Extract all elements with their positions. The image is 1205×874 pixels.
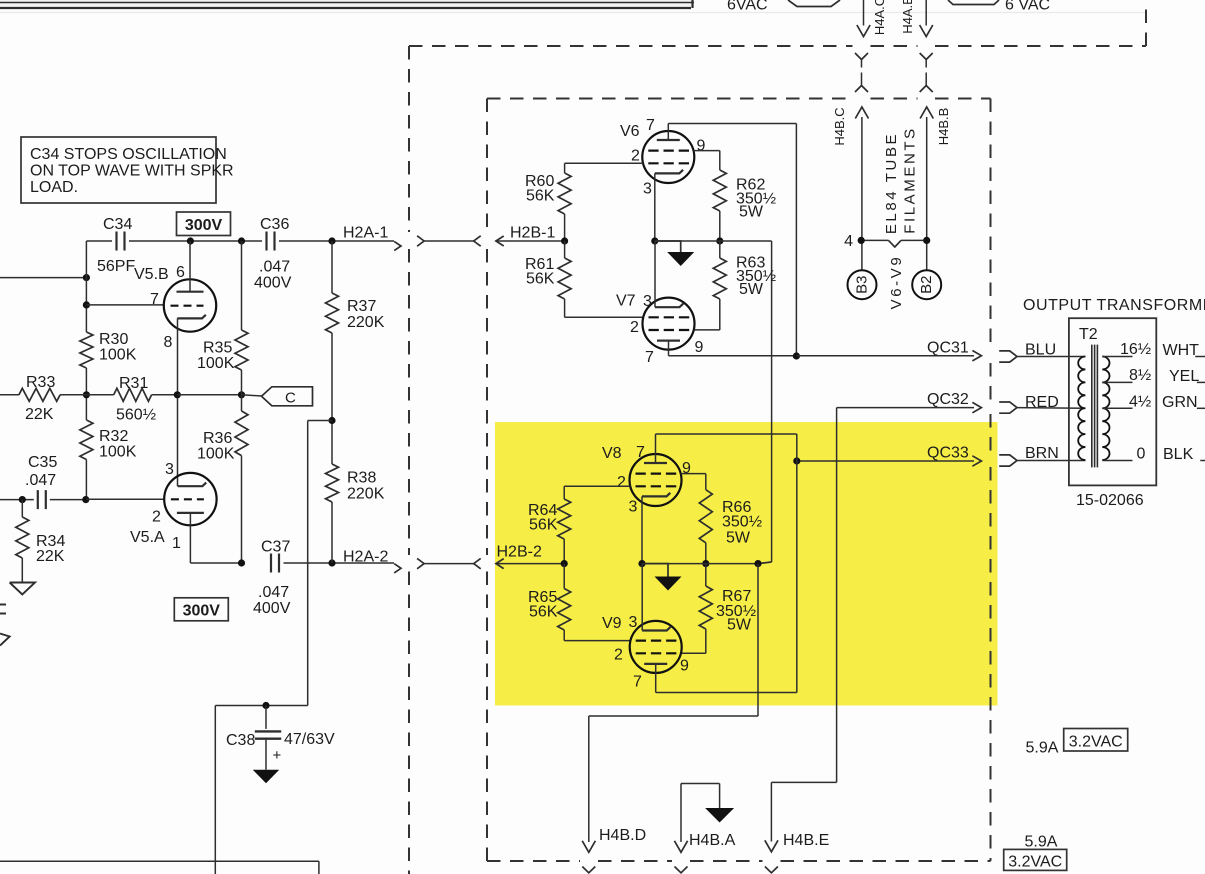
wire H2B-2 into box [496,563,564,565]
svg-text:300V: 300V [185,217,223,234]
wire QC33 [797,460,974,462]
wire V5.B grid [86,304,164,306]
node R64/R65 junction [561,560,568,567]
svg-text:T2: T2 [1079,326,1098,343]
svg-text:.047: .047 [259,259,290,276]
svg-text:100K: 100K [99,347,137,364]
arrowhead H2A-2 tag [394,564,401,573]
arrowhead H2A-1 tag [394,241,401,250]
svg-text:H4B.E: H4B.E [783,832,829,849]
wire QC32 [837,407,974,409]
svg-text:ON TOP WAVE WITH SPKR: ON TOP WAVE WITH SPKR [30,163,234,180]
node grid feed [83,274,90,281]
wire left column x=86 [85,241,87,332]
wire B+ rail C36 to H2A-1 [279,240,394,242]
box 300V upper [177,212,231,236]
svg-text:56K: 56K [529,604,558,621]
svg-text:RED: RED [1025,394,1059,411]
wire R66 to screen bus [705,543,707,564]
pentode V7 [643,298,695,350]
connector H4B.E lower half (clipped) [765,867,778,873]
svg-text:R36: R36 [203,430,232,447]
wire V8 plate rail [655,434,657,463]
wire V5.B plate lead [189,241,191,292]
svg-text:QC32: QC32 [927,391,969,408]
svg-text:H4A.B: H4A.B [900,0,915,34]
fragment ground at left edge [0,634,10,646]
transformer T2 secondary winding [1102,357,1109,461]
svg-text:560½: 560½ [116,407,156,424]
resistor R65 [558,589,571,631]
top frame box bottom edge [0,2,694,4]
svg-text:5.9A: 5.9A [1025,834,1058,851]
wire GRN [1197,407,1205,409]
wire R64 to H2B-2 node [563,539,565,564]
svg-text:QC31: QC31 [927,340,969,357]
resistor R64 [558,499,571,539]
svg-text:220K: 220K [347,486,385,503]
wire R63 to V7 screen [719,241,721,258]
connector H2B-1 female [474,236,481,246]
resistor R33 [19,388,60,401]
inner dashed box bottom edge [487,860,580,862]
svg-text:9: 9 [682,460,691,477]
wire R35 leads [241,241,243,330]
wire WHT [1195,356,1205,358]
svg-text:GRN: GRN [1162,394,1198,411]
wire V7 plate lead [668,341,670,356]
resistor R37 [326,293,339,333]
svg-text:3: 3 [165,461,174,478]
svg-text:WHT: WHT [1163,342,1200,359]
wire H4A.B drop [925,0,927,26]
wire grid feed from left (y=278) [0,277,86,279]
arrowhead QC31 [972,351,981,361]
arrowhead H4A.B [920,25,933,37]
svg-text:V8: V8 [602,445,622,462]
svg-text:C35: C35 [28,454,57,471]
wire QC31 [796,355,974,357]
arrowhead QC33 [972,456,981,466]
node V8/V9 cathode junction [638,560,645,567]
triode V5.A [164,473,216,525]
svg-text:5.9A: 5.9A [1026,740,1059,757]
wire tap to left drop [308,420,332,422]
terminal B2 [912,270,941,299]
resistor R67 [699,586,712,629]
svg-text:6 VAC: 6 VAC [1005,0,1050,14]
svg-text:2: 2 [614,647,623,664]
svg-text:2: 2 [617,474,626,491]
pentode V9 [630,621,682,673]
node screen bus to H4B.D [754,560,761,567]
svg-text:15-02066: 15-02066 [1076,492,1144,509]
svg-text:V7: V7 [616,293,636,310]
svg-text:V9: V9 [602,615,622,632]
resistor R31 [114,388,152,401]
tap 4½ stub [1102,407,1132,409]
wire R34 leads [21,500,23,517]
svg-text:+: + [273,747,282,764]
resistor R63 [713,258,726,299]
svg-text:R35: R35 [203,340,232,357]
wire BRN [1017,460,1085,462]
svg-text:H4B.B: H4B.B [936,108,951,146]
capacitor C35 [37,490,39,509]
node R62/R63 junction [716,237,723,244]
svg-text:2: 2 [152,509,161,526]
wire H2B-1 into box [496,240,565,242]
triode V5.B [164,279,216,331]
note box C34 comment [21,137,216,203]
arrowhead H4B.D (down) [582,841,595,853]
transformer T2 box [1069,318,1156,485]
node C37 left junction [238,559,245,566]
resistor R36 [235,411,248,456]
svg-text:3: 3 [629,499,638,516]
inner dashed box top edge [487,98,853,100]
svg-text:400V: 400V [253,600,291,617]
wire V9 plate lead [655,663,657,692]
wire C38 to ground [265,739,267,770]
tap 8½ stub [1102,381,1132,383]
connector pair H4A.B/H4B.B [920,53,933,60]
connector H2A-1 male [417,236,424,246]
wire cathode bus [655,240,720,242]
svg-text:3: 3 [643,293,652,310]
svg-text:16½: 16½ [1120,341,1151,358]
svg-text:B3: B3 [854,276,871,294]
svg-text:100K: 100K [197,446,235,463]
svg-text:47/63V: 47/63V [284,731,335,748]
node V5 cathode bias junction [174,391,181,398]
arrowhead H2B-1 (left) [496,236,504,246]
wire BLK [1200,460,1205,462]
pentode V8 [630,454,682,506]
svg-text:9: 9 [697,138,706,155]
node R66/R67 junction [702,560,709,567]
wire R31 to cathode node [152,394,178,396]
terminal B3 [848,270,877,299]
node V5.B grid junction [83,301,90,308]
ground (V6/V7 cathodes, filled) [667,252,694,266]
wire R62 to cathode bus [719,211,721,241]
svg-text:R30: R30 [99,331,128,348]
svg-text:QC33: QC33 [927,445,969,462]
resistor R61 [558,258,571,299]
resistor R38 [326,464,339,502]
flag C [262,387,313,406]
svg-text:4: 4 [844,233,853,250]
connector pair H4A.C/H4B.C [855,53,868,60]
svg-text:R37: R37 [347,298,376,315]
svg-text:V6-V9: V6-V9 [888,255,905,310]
svg-text:H2B-1: H2B-1 [510,225,555,242]
svg-text:22K: 22K [25,406,54,423]
svg-text:C38: C38 [226,732,255,749]
svg-text:EL84 TUBE: EL84 TUBE [883,132,900,234]
node filament junction right [923,237,930,244]
arrowhead H4B.C (up) [855,107,868,119]
svg-text:6VAC: 6VAC [727,0,768,14]
node R60/R61 junction [561,237,568,244]
wire V7 cathode lead [654,241,656,307]
wire R38 bottom lead [331,502,333,563]
svg-text:H2A-1: H2A-1 [343,225,388,242]
svg-text:7: 7 [645,349,654,366]
wire H4A.C drop [863,0,865,26]
svg-text:220K: 220K [347,314,385,331]
wire V6 grid to R60 [565,162,644,164]
resistor R62 [713,170,726,211]
svg-text:C: C [285,390,296,407]
inner dashed box right edge [990,99,992,351]
svg-text:7: 7 [636,444,645,461]
top frame header band [0,0,692,7]
svg-text:5W: 5W [726,530,751,547]
svg-text:V6: V6 [620,123,640,140]
arrowhead H4B.B (up) [920,107,933,119]
svg-text:9: 9 [680,658,689,675]
node R30/R31/R32 junction [83,391,90,398]
svg-text:100K: 100K [99,444,137,461]
svg-text:300V: 300V [183,603,221,620]
node filament junction left [858,237,865,244]
tap 16½ stub [1102,356,1132,358]
wire R30 to R31 row [85,368,87,420]
resistor R66 [699,490,712,543]
wire bottom-left bus [0,860,319,862]
wire H4B.D drop [757,564,759,716]
svg-text:8½: 8½ [1129,367,1151,384]
connector shell J-A (clipped) [788,0,840,7]
svg-text:LOAD.: LOAD. [30,179,78,196]
svg-text:3.2VAC: 3.2VAC [1069,734,1123,751]
connector QC31/BLU female [999,351,1017,357]
svg-text:56PF: 56PF [97,258,135,275]
svg-text:V5.A: V5.A [130,529,165,546]
wire V8/V9 screen bus [642,563,706,565]
svg-text:7: 7 [150,291,159,308]
wire H4B.B riser [926,117,928,270]
node H2A-2 junction [328,559,335,566]
svg-text:2: 2 [630,319,639,336]
node R37/R38 tap [328,417,335,424]
wire V5.A plate lead [189,513,191,563]
svg-text:R31: R31 [119,375,148,392]
arrowhead QC32 [972,402,981,412]
svg-text:7: 7 [633,674,642,691]
wire V9 cathode lead [641,564,643,631]
resistor R60 [558,173,571,214]
wire C37 to H2A-2 [284,562,395,564]
wire V6 screen to R62 [694,150,720,152]
svg-text:400V: 400V [254,275,292,292]
connector H2A-2 male [417,558,424,568]
svg-text:3: 3 [643,181,652,198]
svg-text:22K: 22K [36,548,65,565]
svg-text:100K: 100K [197,355,235,372]
wire C35 to grid node [50,499,87,501]
svg-text:V5.B: V5.B [134,266,169,283]
svg-text:BLK: BLK [1163,446,1194,463]
box 3.2VAC upper [1064,729,1128,752]
svg-text:0: 0 [1137,446,1146,463]
svg-text:4½: 4½ [1129,394,1151,411]
svg-text:1: 1 [172,535,181,552]
svg-text:3: 3 [629,614,638,631]
arrowhead H4B.E (down) [765,840,778,852]
node R35/R36 junction [238,391,245,398]
svg-text:B2: B2 [918,276,935,294]
node B+ at 300V box [187,237,194,244]
wire V5.B cathode drop [177,318,179,486]
wire C35 row from left [0,499,34,501]
connector H4B.A lower half (clipped) [675,867,688,873]
svg-text:C37: C37 [261,539,290,556]
node R34 tap [19,496,26,503]
wire ground stub (V6/V7) [655,241,681,252]
connector QC32/RED female [999,402,1017,408]
svg-text:H2B-2: H2B-2 [497,544,542,561]
wire R65 leads [563,564,565,589]
wire cathode row to R35/R36 node [177,394,241,396]
outer dashed boundary right edge going up [1145,0,1147,46]
svg-text:H4B.D: H4B.D [599,827,646,844]
wire feedback across bottom [215,705,307,707]
svg-text:R32: R32 [99,428,128,445]
arrowhead H2B-2 (left) [496,559,504,569]
yellow highlight over V8/V9 output stage [495,422,998,706]
wire V8 grid to R64 [564,485,630,487]
ground (R34, open triangle) [10,583,35,595]
svg-text:C36: C36 [260,216,289,233]
capacitor C36 [265,232,267,251]
svg-text:YEL: YEL [1169,368,1199,385]
wire C38 lead [265,706,267,729]
wire V6 plate rail [667,124,669,141]
wire R37 leads [331,241,333,293]
svg-text:2: 2 [631,148,640,165]
svg-text:H4A.C: H4A.C [872,0,887,35]
capacitor C38 (polarized) [255,730,281,732]
wire H4B.E drop [771,781,836,783]
connector QC33/BRN female [999,455,1017,461]
wire V6 cathode lead [654,173,656,241]
wire ground stub (V8/V9) [642,564,668,577]
wire to C flag [242,395,262,396]
resistor R32 [80,420,93,460]
wire filament bus with merge notch [861,239,888,241]
node V5.A grid junction [82,496,89,503]
svg-text:FILAMENTS: FILAMENTS [901,126,918,234]
svg-text:56K: 56K [529,517,558,534]
svg-text:C34 STOPS OSCILLATION: C34 STOPS OSCILLATION [30,146,227,163]
svg-text:H2A-2: H2A-2 [343,549,388,566]
svg-text:R38: R38 [347,470,376,487]
svg-text:BLU: BLU [1025,342,1056,359]
svg-text:8: 8 [164,334,173,351]
outer dashed boundary top edge [409,45,853,47]
svg-text:BRN: BRN [1025,445,1059,462]
svg-text:56K: 56K [526,271,555,288]
inner dashed box left edge [486,99,488,233]
svg-text:350½: 350½ [722,514,762,531]
pentode V6 [642,131,694,183]
svg-text:C34: C34 [103,216,132,233]
ground (V8/V9 cathodes, filled) [655,577,682,591]
wire RED [1017,407,1085,410]
box 3.2VAC lower [1004,849,1067,870]
wire R33 to R31 [86,394,113,396]
transformer T2 primary winding [1078,357,1085,461]
resistor R35 [235,330,248,370]
capacitor C34 [115,232,117,251]
arrowhead H4B.A (down) [674,841,687,853]
node H2A-1 junction [328,237,335,244]
node QC31 junction [793,352,800,359]
wire H4B.C riser [861,117,863,270]
box 300V lower [174,598,228,621]
outer dashed boundary left edge [408,46,410,232]
connector H2B-2 female [474,558,481,568]
wire R32 to C35 row [85,460,87,500]
wire R67 to V9 screen [705,564,707,586]
svg-text:R33: R33 [26,374,55,391]
wire V8 screen to R66 [681,473,706,475]
arrowhead H4A.C [857,25,870,37]
wire YEL [1197,381,1205,383]
wire H4B.A ground link [680,784,682,843]
node B+ at R35 column [238,237,245,244]
svg-text:OUTPUT TRANSFORMER: OUTPUT TRANSFORMER [1023,297,1205,314]
svg-text:7: 7 [646,117,655,134]
wire B+ rail C34 to C36 [129,240,262,242]
svg-text:6: 6 [176,264,185,281]
svg-text:.047: .047 [25,472,56,489]
svg-text:9: 9 [695,339,704,356]
fragment letter at left edge [0,604,6,606]
wire R60 to H2B-1 node [564,214,566,241]
resistor R30 [80,332,93,368]
connector H4B.D lower half (clipped) [582,867,595,873]
wire V5.A grid [86,498,164,500]
wire BLU [1017,356,1085,358]
svg-text:H4B.C: H4B.C [832,107,847,145]
connector shell J-B (clipped) [948,0,999,5]
wire R36 leads [241,395,243,411]
svg-text:3.2VAC: 3.2VAC [1008,854,1062,871]
top frame faint rule [0,12,1146,14]
wire R33 entry [0,394,19,396]
wire B+ rail left segment [86,240,112,242]
svg-text:5W: 5W [739,204,764,221]
svg-text:56K: 56K [526,188,555,205]
node V6/V7 cathode junction [651,237,658,244]
capacitor C37 [270,554,272,573]
resistor R34 [16,517,29,558]
svg-text:.047: .047 [258,584,289,601]
wire V8 cathode lead [641,496,643,563]
svg-text:5W: 5W [739,281,764,298]
wire R61 leads [564,241,566,258]
ground (C38, filled) [253,770,280,784]
svg-text:5W: 5W [727,617,752,634]
node QC33 junction [793,457,800,464]
tap 0 stub [1102,460,1132,462]
ground (H4B.A, filled) [705,808,734,823]
transformer T2 core [1091,345,1093,468]
